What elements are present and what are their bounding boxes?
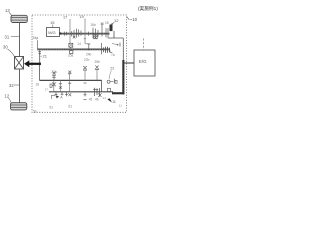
svg-text:46: 46	[95, 98, 99, 102]
gear cluster near output right	[93, 88, 99, 97]
gear stub x=69.7 on shaft A	[68, 71, 71, 74]
gear axis x=60.5	[60, 80, 62, 91]
dashed box 10 (transmission case)	[32, 15, 127, 112]
corner from shaft A down to output shaft	[101, 80, 103, 91]
svg-text:45: 45	[89, 98, 93, 102]
wheel 12	[11, 103, 27, 110]
hanging gears below output shaft B	[54, 92, 86, 100]
svg-text:7a: 7a	[111, 53, 115, 57]
svg-text:27b: 27b	[84, 58, 90, 62]
synchro cluster between A and B at x=52	[52, 83, 55, 87]
svg-text:21: 21	[43, 54, 48, 59]
differential 30 (X box)	[15, 57, 24, 70]
gear stub x=85 on shaft A	[83, 66, 87, 69]
clutch housing dark bar	[122, 60, 124, 94]
svg-text:(実施例1): (実施例1)	[138, 5, 158, 12]
clutch circles	[107, 80, 110, 83]
svg-text:29b: 29b	[95, 60, 101, 64]
clutch tick 25 with arrow	[119, 43, 121, 47]
svg-text:12: 12	[114, 18, 119, 23]
svg-text:32: 32	[9, 83, 14, 88]
svg-text:E/G: E/G	[139, 59, 147, 64]
svg-text:M/G: M/G	[48, 30, 55, 35]
svg-text:13: 13	[5, 8, 10, 13]
middle shaft (ribbed)	[37, 48, 110, 50]
gears on middle shaft	[69, 43, 110, 54]
svg-text:31: 31	[5, 34, 10, 39]
svg-text:19: 19	[80, 15, 84, 19]
svg-text:50: 50	[33, 109, 37, 113]
E/G engine box	[134, 50, 155, 76]
svg-text:18: 18	[105, 21, 109, 25]
gear box below top shaft	[94, 35, 98, 39]
svg-text:30: 30	[3, 45, 8, 50]
svg-text:26b: 26b	[91, 23, 97, 27]
section mark A	[52, 95, 56, 99]
svg-text:25a: 25a	[68, 54, 74, 58]
svg-text:24a: 24a	[33, 36, 39, 40]
svg-text:61: 61	[69, 105, 73, 109]
engine connection line	[124, 62, 134, 64]
svg-text:15: 15	[50, 20, 55, 25]
step at right end of middle shaft	[110, 50, 112, 52]
gear stub x=54 on shaft A	[53, 72, 56, 75]
clutch link line	[108, 31, 124, 60]
svg-text:11: 11	[119, 103, 122, 107]
svg-text:51: 51	[50, 105, 54, 109]
arrow 11	[107, 98, 112, 102]
svg-text:14: 14	[100, 22, 104, 26]
output shaft B	[49, 91, 113, 93]
motor-generator M/G box	[47, 28, 60, 37]
svg-text:12: 12	[5, 94, 10, 99]
svg-text:17: 17	[45, 88, 49, 92]
axle 31	[19, 23, 21, 57]
svg-text:24b: 24b	[86, 53, 92, 57]
output gear 21 vertical	[39, 50, 41, 63]
gear ticks on top shaft	[64, 23, 108, 39]
svg-text:14: 14	[77, 42, 81, 46]
label 10	[127, 17, 130, 20]
svg-text:17: 17	[63, 16, 67, 20]
engine leader	[143, 39, 145, 51]
top shaft (input, ribbed)	[61, 33, 110, 35]
svg-text:~10: ~10	[130, 17, 138, 22]
axle 32	[19, 69, 21, 103]
thick joint into clutch bar	[112, 92, 124, 94]
input coupler dark blob	[110, 25, 113, 32]
synchro X below top shaft	[94, 36, 97, 39]
vertical from 21 down to shaft A	[39, 65, 41, 80]
power-flow arrow into differential	[24, 60, 41, 67]
svg-text:41: 41	[103, 96, 107, 100]
gear stub x=97 on shaft A	[95, 65, 98, 68]
svg-text:23: 23	[110, 67, 114, 71]
counter shaft A	[40, 79, 102, 81]
motor shaft stub	[59, 32, 61, 34]
svg-text:16: 16	[36, 82, 40, 86]
svg-text:11: 11	[112, 100, 116, 104]
wheel 13	[11, 15, 27, 22]
